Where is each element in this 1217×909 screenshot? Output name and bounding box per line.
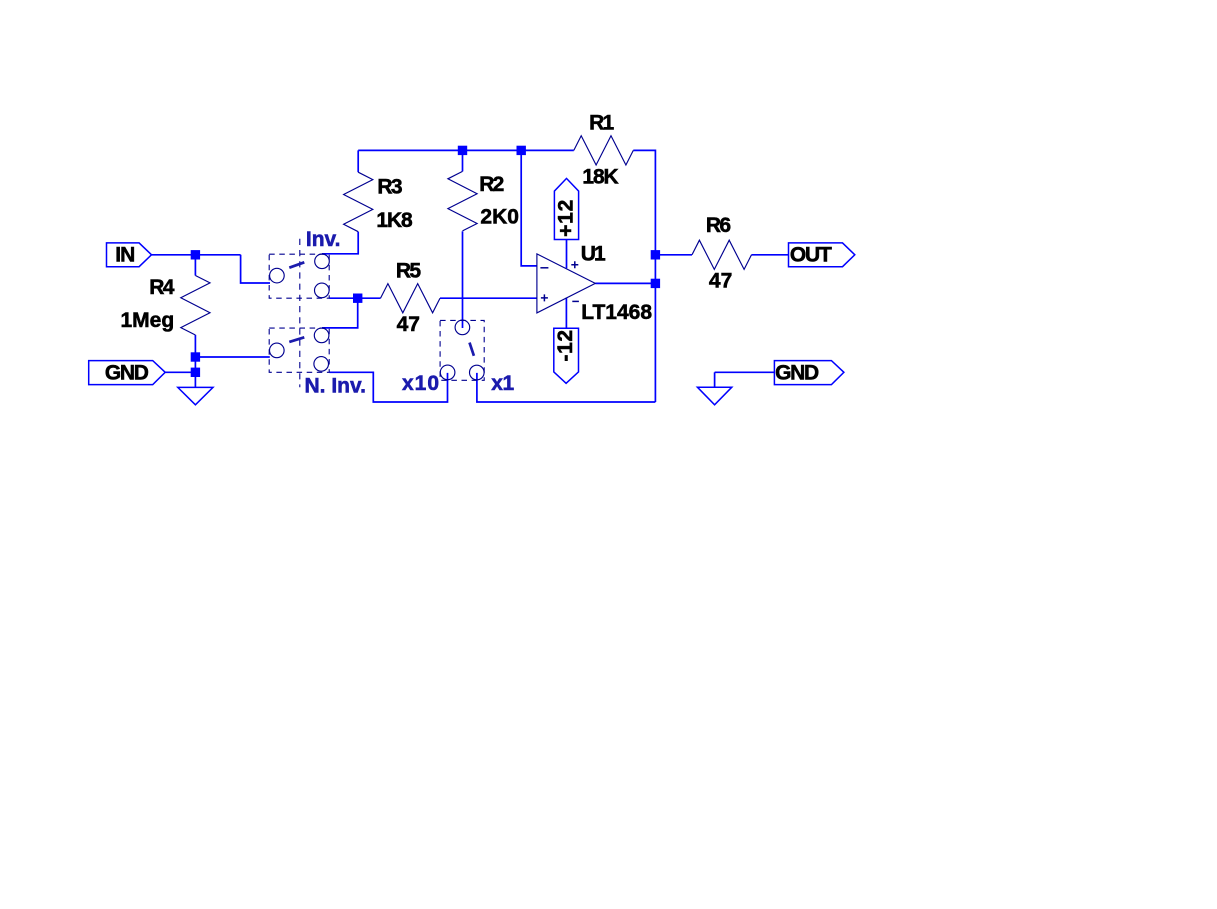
svg-text:1K8: 1K8 — [376, 209, 413, 232]
svg-text:LT1468: LT1468 — [581, 301, 652, 324]
svg-text:+12: +12 — [555, 199, 578, 237]
svg-text:x10: x10 — [402, 372, 440, 395]
svg-text:GND: GND — [105, 362, 149, 385]
svg-text:R2: R2 — [479, 173, 503, 196]
svg-text:N. Inv.: N. Inv. — [305, 375, 366, 398]
svg-text:OUT: OUT — [790, 243, 832, 266]
svg-text:1Meg: 1Meg — [121, 309, 175, 332]
svg-text:R3: R3 — [377, 175, 401, 198]
svg-text:R4: R4 — [149, 276, 174, 299]
svg-text:x1: x1 — [491, 372, 514, 395]
svg-text:18K: 18K — [582, 165, 618, 188]
svg-text:47: 47 — [709, 269, 732, 292]
svg-text:-12: -12 — [554, 329, 577, 361]
svg-text:R5: R5 — [396, 260, 421, 283]
svg-text:47: 47 — [397, 313, 420, 336]
svg-text:2K0: 2K0 — [480, 206, 519, 229]
svg-text:GND: GND — [775, 361, 819, 384]
svg-text:IN: IN — [115, 243, 134, 266]
svg-text:Inv.: Inv. — [306, 228, 341, 251]
svg-text:U1: U1 — [581, 243, 606, 266]
svg-text:R1: R1 — [589, 111, 614, 134]
svg-text:R6: R6 — [706, 214, 730, 237]
